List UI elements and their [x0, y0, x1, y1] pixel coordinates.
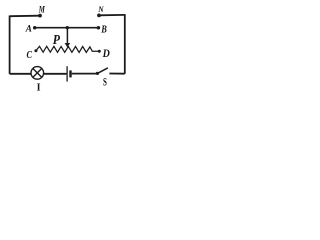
node B terminal dot — [97, 26, 101, 30]
resistor element C-D (zigzag) — [36, 46, 99, 52]
wire: switch fixed contact to bottom-right corner — [109, 73, 124, 75]
battery cell: short thick plate — [69, 70, 71, 77]
node N terminal dot — [97, 14, 101, 18]
wire: top-right horizontal from N terminal to frame corner — [99, 14, 125, 16]
switch S lever (open) — [97, 68, 107, 73]
wire: right frame vertical — [124, 14, 126, 74]
battery cell: long plate — [66, 66, 68, 81]
wire: lamp to battery — [44, 73, 67, 75]
svg-text:P: P — [53, 32, 61, 47]
node A terminal dot — [33, 26, 37, 30]
svg-text:S: S — [103, 75, 107, 89]
svg-text:M: M — [38, 6, 45, 16]
wire: top-left horizontal from frame corner to M terminal — [10, 15, 40, 18]
node M terminal dot — [38, 14, 42, 18]
svg-text:I: I — [37, 83, 41, 92]
wire: bottom-left from frame to lamp — [10, 73, 31, 75]
wire: A-B bar of rheostat — [35, 27, 99, 29]
switch S pivot dot — [96, 72, 99, 75]
wire: left frame vertical — [9, 15, 11, 74]
node D terminal dot — [98, 50, 101, 53]
svg-text:C: C — [27, 50, 33, 61]
lamp I (circle with X) — [31, 67, 44, 80]
wiper arrowhead of potentiometer P — [65, 43, 71, 48]
node C terminal dot — [34, 49, 37, 52]
svg-text:B: B — [100, 24, 107, 35]
wire: battery to switch pivot — [72, 73, 97, 75]
wire: wiper stem down from junction — [66, 28, 68, 43]
svg-text:A: A — [25, 24, 32, 34]
svg-text:D: D — [102, 48, 110, 60]
node junction of wiper on A-B bar — [66, 26, 69, 29]
svg-text:N: N — [97, 4, 104, 14]
